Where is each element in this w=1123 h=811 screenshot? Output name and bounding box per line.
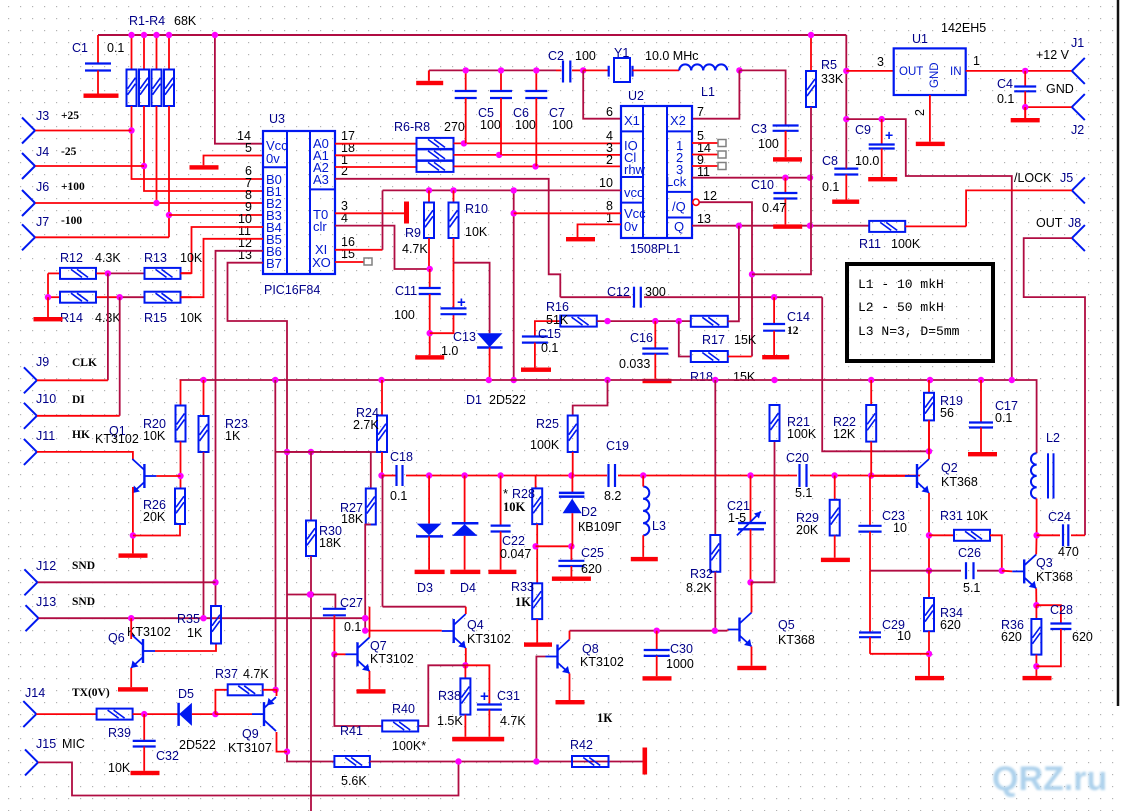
label U2 pin 2 [606, 153, 613, 167]
svg-text:Y1: Y1 [614, 46, 629, 60]
wire pin5 0v [204, 156, 264, 166]
svg-text:DI: DI [72, 394, 85, 406]
svg-text:0.1: 0.1 [390, 489, 407, 503]
capacitor C8 [834, 169, 858, 200]
svg-text:IN: IN [950, 66, 962, 78]
label D4 [460, 581, 476, 595]
svg-text:L2 - 50 mkH: L2 - 50 mkH [858, 300, 944, 315]
label R40 [392, 702, 426, 753]
wire J11-Q1 [37, 452, 133, 460]
label U3 pin 13 [238, 248, 252, 262]
svg-text:13: 13 [697, 212, 711, 226]
capacitor C21 variable [737, 476, 766, 583]
svg-text:/LOCK: /LOCK [1014, 171, 1052, 185]
svg-text:J9: J9 [36, 355, 49, 369]
transistor Q5 [728, 613, 752, 647]
wire T0 row [335, 212, 404, 214]
label R37 [215, 667, 269, 681]
label L1 [701, 85, 715, 99]
label R20 [143, 417, 166, 443]
svg-text:20K: 20K [796, 523, 819, 537]
wire Q5 collector [751, 582, 753, 612]
label C6 [513, 106, 536, 132]
svg-text:R28: R28 [512, 487, 535, 501]
label D1 [466, 393, 526, 407]
svg-text:A3: A3 [313, 172, 329, 187]
svg-text:0.1: 0.1 [822, 180, 839, 194]
svg-text:R33: R33 [511, 580, 534, 594]
wire Q4 collector [465, 607, 467, 614]
svg-text:620: 620 [1001, 630, 1022, 644]
node row476 [747, 472, 753, 478]
wire R4 bottom [166, 106, 172, 237]
wire R5 bottom [752, 107, 811, 274]
wire R40 link [418, 665, 466, 726]
label C2 [548, 49, 596, 63]
wire XI path [335, 249, 383, 251]
resistor R30 [306, 521, 316, 811]
label U2 pin 5 [697, 129, 704, 143]
label R19 [940, 394, 963, 420]
resistor R5 [806, 32, 816, 107]
resistor R42 [572, 756, 609, 767]
label C18 [390, 450, 413, 503]
node R39-C32 [141, 711, 147, 717]
wire Q8 base [536, 657, 545, 762]
resistor R34 [924, 571, 934, 676]
svg-text:Q6: Q6 [108, 631, 125, 645]
svg-text:J6: J6 [36, 180, 49, 194]
capacitor C24 [1063, 524, 1085, 546]
svg-text:12: 12 [703, 189, 717, 203]
label R17 [702, 333, 757, 347]
svg-text:10K: 10K [465, 225, 488, 239]
label U3 pin 9 [245, 200, 252, 214]
wire R16 row [597, 318, 691, 324]
svg-text:CLK: CLK [72, 357, 97, 369]
svg-text:J12: J12 [36, 559, 56, 573]
svg-text:8.2K: 8.2K [686, 581, 712, 595]
wire R14 gnd stem [47, 297, 49, 317]
svg-text:1508PL1: 1508PL1 [630, 242, 680, 256]
label C7 [549, 106, 573, 132]
node row476 [831, 472, 837, 478]
svg-text:OUT: OUT [1036, 216, 1063, 230]
wire row575 [870, 570, 961, 572]
svg-text:D1: D1 [466, 393, 482, 407]
svg-text:QRZ.ru: QRZ.ru [992, 760, 1107, 798]
wire row630 [570, 628, 728, 634]
svg-text:R13: R13 [144, 251, 167, 265]
resistor R25 [568, 380, 608, 476]
label R34 [940, 606, 963, 632]
svg-text:33K: 33K [821, 72, 844, 86]
node rail380 [771, 377, 777, 383]
transistor Q2 [905, 459, 929, 493]
node rail380 [1009, 377, 1015, 383]
svg-text:+: + [885, 127, 893, 143]
node C24 row [1033, 532, 1039, 538]
wire XO pin15 [335, 261, 364, 263]
label SND J12 [72, 560, 95, 572]
svg-text:KT3102: KT3102 [127, 625, 171, 639]
svg-text:3: 3 [877, 55, 884, 69]
svg-text:L1 - 10 mkH: L1 - 10 mkH [858, 277, 944, 292]
wire Q2 emitter [926, 493, 932, 574]
op-amp U1 142EH5 box [894, 48, 966, 95]
wire Q7 base [334, 653, 345, 655]
capacitor C7 [525, 67, 547, 166]
capacitor C3 [773, 126, 799, 131]
label C30 [666, 642, 694, 671]
label U2 [628, 89, 644, 103]
wire D5-Q9 [215, 713, 252, 715]
capacitor C10 [773, 178, 797, 225]
svg-text:R11: R11 [859, 237, 881, 251]
ground C8 [832, 200, 859, 204]
wire /Q [693, 199, 755, 357]
node row582 C21 [747, 579, 753, 585]
svg-text:C24: C24 [1048, 510, 1071, 524]
svg-text:R42: R42 [570, 738, 593, 752]
node rail380 [378, 377, 384, 383]
wire cap top rail [429, 69, 556, 71]
node rail380 [927, 377, 933, 383]
wire bus to U1 [843, 35, 849, 169]
label GND [1046, 82, 1074, 96]
node Lck-C10 [782, 175, 788, 181]
label Q4 [467, 618, 511, 646]
svg-text:56: 56 [940, 406, 954, 420]
label DI [72, 394, 85, 406]
svg-text:620: 620 [581, 562, 602, 576]
svg-text:10K: 10K [108, 761, 131, 775]
capacitor C14 [763, 297, 785, 355]
svg-text:10K: 10K [180, 311, 203, 325]
label Y1 [614, 46, 629, 60]
label OUT J8 [1036, 216, 1081, 230]
svg-text:1: 1 [973, 54, 980, 68]
node row476 [640, 472, 646, 478]
wire D1 link [454, 263, 490, 334]
label R5 [821, 58, 844, 86]
svg-text:U2: U2 [628, 89, 644, 103]
wire J4 [35, 165, 144, 167]
label C32 [156, 749, 179, 763]
svg-text:J3: J3 [36, 109, 49, 123]
connector J14 [23, 686, 45, 727]
wire Q1 base [156, 475, 180, 477]
svg-text:/Q: /Q [672, 199, 686, 214]
label R15 [144, 311, 203, 325]
svg-text:1000: 1000 [666, 657, 694, 671]
svg-text:J11: J11 [36, 429, 55, 443]
resistor R6 [417, 138, 454, 149]
capacitor C11 [419, 269, 441, 355]
label +12 V [1036, 48, 1070, 62]
svg-text:KT3102: KT3102 [370, 652, 414, 666]
svg-text:rhw: rhw [624, 162, 646, 177]
svg-text:GND: GND [929, 62, 941, 88]
label -25 [61, 146, 77, 158]
wire Q3 emitter [1033, 588, 1039, 608]
svg-text:C32: C32 [156, 749, 179, 763]
resistor R8 [417, 161, 454, 172]
wire U1 pin2 [929, 95, 931, 142]
wire Q6 emitter [130, 668, 132, 687]
label R31 [940, 509, 989, 523]
svg-text:R6-R8: R6-R8 [394, 120, 430, 134]
svg-text:Q4: Q4 [467, 618, 484, 632]
transistor Q8 [546, 640, 570, 674]
capacitor C28 [1036, 605, 1071, 666]
svg-text:C2: C2 [548, 49, 564, 63]
inductor L2 [1031, 453, 1054, 535]
wire Q5 emitter [751, 647, 753, 666]
svg-text:R10: R10 [465, 202, 488, 216]
label Q2 [941, 461, 978, 489]
wire Vcc8 row [514, 212, 621, 214]
svg-text:MIC: MIC [62, 737, 85, 751]
ground U1 [916, 142, 945, 146]
wire vco row [383, 189, 622, 191]
svg-text:KT3102: KT3102 [580, 655, 624, 669]
svg-text:0.033: 0.033 [619, 357, 650, 371]
wire J13 row [39, 615, 369, 621]
svg-text:0.1: 0.1 [107, 41, 124, 55]
ground Q1 [119, 553, 148, 557]
svg-text:J13: J13 [36, 595, 56, 609]
wire R21 bottom link [751, 441, 775, 582]
label U2 pin 4 [606, 129, 613, 143]
svg-text:R40: R40 [392, 702, 415, 716]
svg-text:5.1: 5.1 [963, 581, 980, 595]
svg-text:R37: R37 [215, 667, 238, 681]
varactor D2 [559, 476, 585, 547]
svg-text:R5: R5 [821, 58, 837, 72]
label R29 [796, 511, 819, 537]
svg-text:vco: vco [624, 185, 644, 200]
label C8 [822, 154, 839, 194]
svg-text:Q2: Q2 [941, 461, 958, 475]
wire X2 drop [692, 70, 739, 118]
svg-text:+: + [480, 688, 489, 705]
ground cap rail [416, 70, 443, 85]
label R24 [353, 406, 379, 432]
wire Q4 base [362, 627, 442, 633]
label U3 pin 4 [341, 211, 348, 225]
svg-text:1K: 1K [187, 626, 203, 640]
svg-text:R31: R31 [940, 509, 963, 523]
ground C4 [1011, 107, 1040, 122]
resistor R12 [48, 268, 108, 279]
label R33 [511, 580, 534, 609]
svg-text:4.7K: 4.7K [500, 714, 526, 728]
label R13 [144, 251, 203, 265]
resistor R39 [97, 709, 179, 720]
svg-text:10.0 MHc: 10.0 MHc [645, 49, 699, 63]
label U2 pin 3 [606, 141, 613, 155]
svg-text:1.5K: 1.5K [437, 714, 463, 728]
wire C9 row [846, 119, 1012, 380]
svg-text:1-5: 1-5 [728, 511, 746, 525]
svg-text:C30: C30 [670, 642, 693, 656]
node L1-X2 junction [736, 67, 742, 73]
label U3 pin 15 [341, 247, 355, 261]
label C28 [1050, 603, 1093, 644]
wire row606 [383, 606, 466, 608]
svg-text:100: 100 [758, 137, 779, 151]
svg-text:U1: U1 [912, 32, 928, 46]
node C9 top [879, 116, 885, 122]
resistor R4 [164, 32, 174, 106]
capacitor C5 [455, 67, 477, 143]
power bar R9 [404, 202, 409, 224]
svg-text:clr: clr [313, 219, 327, 234]
label C11 [394, 284, 417, 322]
label L3 [652, 519, 666, 533]
label R21 [787, 415, 817, 441]
wire C13 link [430, 314, 454, 333]
svg-text:SND: SND [72, 596, 95, 608]
wire row476 [382, 475, 397, 477]
ground Q5 [737, 666, 766, 670]
wire Q1 emitter [130, 487, 136, 553]
wire J9 [37, 379, 108, 381]
label C17 [995, 399, 1018, 425]
label R1-R4 68K [129, 14, 197, 28]
wire OUT row [846, 70, 893, 72]
svg-text:0.1: 0.1 [344, 620, 361, 634]
ground R14 [34, 317, 63, 321]
terminator pin14 [718, 151, 726, 158]
svg-text:R41: R41 [340, 724, 363, 738]
node rail380 [486, 377, 492, 383]
ground C1 [84, 94, 119, 98]
wire B5 [180, 239, 264, 297]
label R14 [60, 311, 121, 325]
wire R24drop606 [382, 476, 384, 607]
label C14 [787, 310, 810, 337]
svg-text:XO: XO [312, 255, 331, 270]
wire row594 [287, 591, 335, 609]
svg-text:R18: R18 [690, 370, 713, 384]
label R10 [465, 202, 488, 239]
svg-text:C3: C3 [751, 122, 767, 136]
node R24 bottom [378, 472, 384, 478]
resistor R24 [377, 380, 387, 476]
capacitor C25 [558, 546, 584, 576]
capacitor C2 [556, 61, 583, 83]
svg-text:X2: X2 [670, 113, 686, 128]
svg-text:68K: 68K [174, 14, 197, 28]
label C25 [581, 546, 604, 576]
svg-text:10K: 10K [503, 500, 526, 514]
node R14-R15 junction [117, 294, 123, 300]
label R28 [503, 486, 535, 514]
svg-text:100: 100 [515, 118, 536, 132]
svg-text:PIC16F84: PIC16F84 [264, 283, 320, 297]
svg-text:KT3102: KT3102 [95, 432, 139, 446]
diode D5 [179, 703, 216, 726]
wire A1 row [335, 154, 417, 156]
svg-text:6: 6 [606, 105, 613, 119]
resistor R17 [691, 226, 739, 327]
svg-text:B7: B7 [266, 256, 282, 271]
crystal Y1 [583, 58, 679, 82]
svg-text:100K*: 100K* [392, 739, 426, 753]
wire C29-R34 [870, 653, 929, 655]
label R39 [108, 726, 131, 775]
svg-text:R9: R9 [405, 226, 421, 240]
wire J8 [1024, 238, 1085, 535]
resistor R26 [175, 489, 185, 525]
ground C22 [488, 570, 516, 574]
resistor R23 [199, 380, 209, 618]
ground C17 [968, 452, 997, 456]
label Q8 [580, 642, 624, 669]
label D2 [578, 505, 621, 534]
svg-text:100: 100 [394, 308, 415, 322]
transistor Q6 [131, 634, 155, 668]
svg-text:J4: J4 [36, 145, 49, 159]
node R12-R13 junction [105, 270, 111, 276]
svg-text:X1: X1 [624, 113, 640, 128]
node D5-R37 [212, 711, 218, 717]
svg-text:R15: R15 [144, 311, 167, 325]
label HK [72, 429, 90, 441]
ground C11 [415, 355, 444, 359]
svg-text:C10: C10 [751, 178, 774, 192]
svg-text:15K: 15K [733, 370, 756, 384]
svg-text:2: 2 [913, 109, 927, 116]
label 1508PL1 [630, 242, 680, 256]
connector J15 [25, 737, 56, 775]
svg-text:+100: +100 [61, 181, 85, 193]
connector J10 [24, 392, 56, 429]
svg-text:Q3: Q3 [1036, 556, 1053, 570]
ground R34 [915, 676, 944, 680]
label U2 pin 13 [697, 212, 711, 226]
node row476 [868, 472, 874, 478]
wire pin9 stub [692, 165, 718, 167]
ground C3 [773, 131, 802, 162]
wire J5 [966, 190, 1072, 226]
svg-text:GND: GND [1046, 82, 1074, 96]
label pin2 [913, 109, 927, 116]
wire B6 [212, 251, 263, 606]
resistor R31 [929, 530, 1002, 571]
wire Q row [692, 223, 869, 229]
svg-text:KT368: KT368 [1036, 570, 1073, 584]
page border [1117, 0, 1120, 706]
svg-text:L3: L3 [652, 519, 666, 533]
svg-text:C9: C9 [855, 123, 871, 137]
label U1 [912, 32, 928, 46]
label C12 [607, 285, 666, 299]
ground D3 [415, 570, 445, 574]
svg-text:4.7K: 4.7K [402, 242, 428, 256]
transistor Q9 [252, 697, 276, 731]
wire Lck row [692, 177, 810, 179]
wire DI riser [119, 297, 121, 416]
label pin1 [973, 54, 980, 68]
resistor R28 [532, 476, 542, 584]
svg-text:U3: U3 [269, 112, 285, 126]
node rail380 [272, 377, 278, 383]
resistor R21 [770, 405, 780, 441]
label C29 [882, 618, 911, 643]
